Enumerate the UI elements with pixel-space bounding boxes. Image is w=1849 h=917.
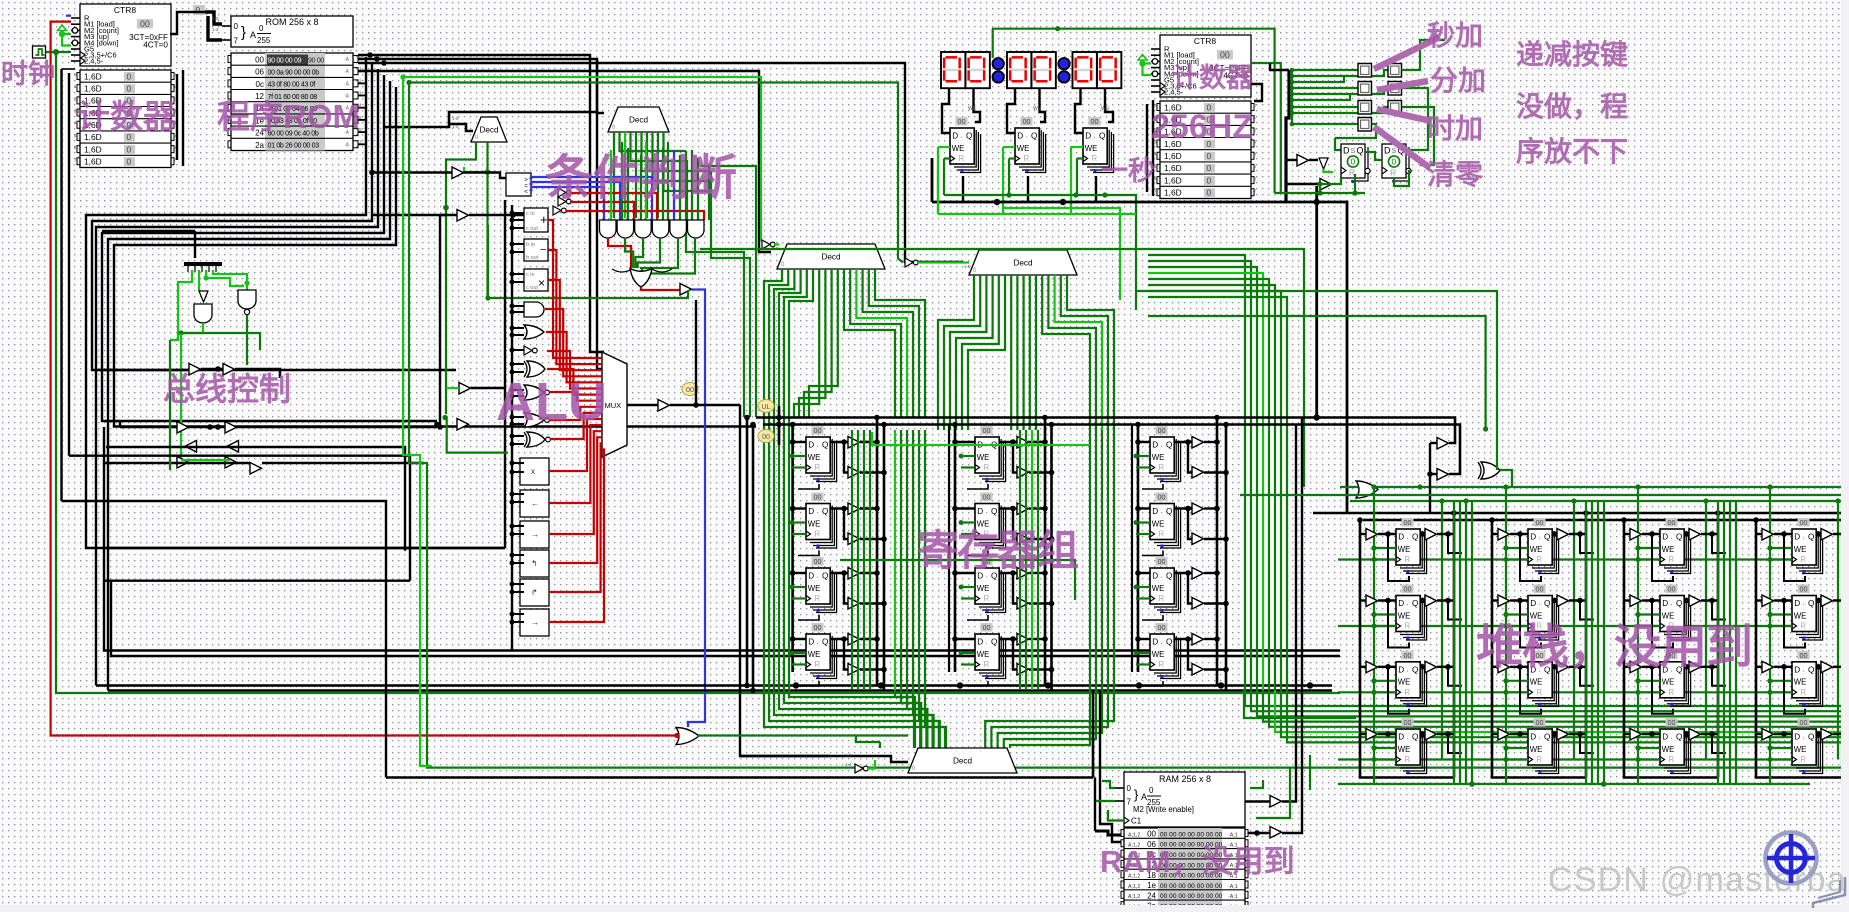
buffer B1 xyxy=(680,284,692,296)
wire green y298 xyxy=(488,290,688,298)
buffer BC8 xyxy=(225,457,237,469)
svg-text:0: 0 xyxy=(1207,188,1212,198)
svg-text:·A: ·A xyxy=(344,69,350,75)
buffer SR33 xyxy=(1689,661,1701,673)
wire AND outputs staircase to OR xyxy=(608,238,631,268)
buffer Q33a xyxy=(1192,568,1204,580)
svg-text:00: 00 xyxy=(686,385,694,394)
wire red condition rows xyxy=(570,193,657,220)
NAND gate (bus control) xyxy=(238,290,256,309)
inverter N6 xyxy=(855,764,863,773)
buffer RB2 xyxy=(1270,827,1282,839)
program counter CTR8 U1 xyxy=(71,4,177,168)
ROM 256x8 U2 xyxy=(222,16,353,47)
buffer SR23 xyxy=(1557,661,1569,673)
svg-text:0: 0 xyxy=(127,157,132,167)
svg-text:堆栈，没用到: 堆栈，没用到 xyxy=(1476,620,1752,673)
buffer Q13a xyxy=(848,568,860,580)
buffer SR11 xyxy=(1425,529,1437,541)
stack register SREG22 xyxy=(1528,585,1559,641)
register column 2 vertical buses xyxy=(954,425,957,673)
XNOR gate G7 xyxy=(527,432,545,447)
svg-text:24: 24 xyxy=(1147,891,1156,900)
buffer Q14b xyxy=(848,664,860,676)
svg-text:01 0b 26 00 00 03: 01 0b 26 00 00 03 xyxy=(268,143,320,150)
svg-text:<: < xyxy=(524,190,528,196)
svg-text:A;1,2: A;1,2 xyxy=(1128,884,1140,890)
buffer BC7 xyxy=(177,457,189,469)
stack column 1 loop xyxy=(1360,520,1454,778)
buffer Q22a xyxy=(1017,503,1029,515)
staircase into decoder U9 right xyxy=(1010,690,1090,748)
AND gate A6 xyxy=(688,220,705,238)
green elbows RAM right xyxy=(1250,780,1263,788)
svg-text:4CT=0: 4CT=0 xyxy=(143,41,168,50)
buffer Q12b xyxy=(848,533,860,545)
buffer RB1 xyxy=(1270,796,1282,808)
page corner glyph xyxy=(1813,877,1845,908)
buffer Q14a xyxy=(848,634,860,646)
svg-text:RAM，没用到: RAM，没用到 xyxy=(1100,844,1295,879)
svg-text:}: } xyxy=(241,24,246,41)
stack register SREG41 xyxy=(1792,518,1823,574)
wire long black y548 xyxy=(106,547,505,549)
flip-flop DSQ F2 xyxy=(1382,144,1411,183)
buffer SL13 xyxy=(1366,661,1378,673)
buffer SR34 xyxy=(1689,729,1701,741)
svg-text:0: 0 xyxy=(1149,786,1154,795)
wire gate outputs xyxy=(181,323,203,333)
7-segment display digit 2 xyxy=(966,52,990,88)
svg-text:1,6D: 1,6D xyxy=(84,144,102,154)
buffer B3 xyxy=(658,400,670,412)
AND gate G1 xyxy=(524,302,544,317)
stack register SREG12 xyxy=(1396,585,1427,641)
buffer Q21b xyxy=(1017,467,1029,479)
node value badge 00 xyxy=(682,383,698,396)
node badges UL/00 xyxy=(758,400,774,413)
svg-text:0: 0 xyxy=(127,84,132,94)
wire ROM outputs to right (row1) xyxy=(358,63,963,262)
counter2 rows left bracket xyxy=(1146,104,1148,192)
wire to decoder U3 xyxy=(384,112,597,127)
buffer Q24a xyxy=(1017,634,1029,646)
junction dots on ROM output bus xyxy=(367,52,373,58)
svg-text:·A: ·A xyxy=(344,142,350,148)
wires register REG14 xyxy=(793,638,806,640)
wire long green y771 xyxy=(409,83,1849,768)
svg-text:C1: C1 xyxy=(1131,817,1142,826)
wires display 1 to register xyxy=(942,88,950,133)
register REG24 xyxy=(975,623,1006,679)
green bus under display registers xyxy=(944,195,1136,310)
display register R3 xyxy=(1083,117,1114,173)
buffer Q13b xyxy=(848,598,860,610)
svg-text:↰: ↰ xyxy=(531,559,538,568)
wire bright green to M3/G5 xyxy=(62,33,71,35)
svg-text:c in: c in xyxy=(526,272,535,278)
svg-text:1,6D: 1,6D xyxy=(1164,163,1182,173)
green feed to XOR xyxy=(1136,291,1497,470)
svg-text:−: − xyxy=(540,244,546,256)
svg-text:2a: 2a xyxy=(255,141,264,150)
stack register SREG43 xyxy=(1792,651,1823,707)
stack register SREG24 xyxy=(1528,718,1559,774)
wires register REG24 xyxy=(955,638,975,640)
buffer BF2 xyxy=(1320,179,1332,191)
register block left bus pair xyxy=(746,418,749,686)
green bus to buttons xyxy=(1291,68,1293,124)
buffer bus end xyxy=(434,422,440,428)
buffer Q23a xyxy=(1017,568,1029,580)
buffer SR41 xyxy=(1821,529,1833,541)
svg-text:0: 0 xyxy=(1127,784,1132,793)
svg-text:256HZ: 256HZ xyxy=(1151,108,1253,146)
register REG14 xyxy=(806,623,837,679)
inverter N3 xyxy=(553,206,561,215)
buffer Q32a xyxy=(1192,503,1204,515)
svg-text:00: 00 xyxy=(762,434,770,441)
wire decoder U3 outputs xyxy=(446,142,476,414)
buffer SB2 xyxy=(1437,469,1449,481)
svg-text:90 00 00 09: 90 00 00 09 xyxy=(268,57,302,64)
register REG32 xyxy=(1150,493,1181,549)
register REG13 xyxy=(806,557,837,613)
green verticals register zone xyxy=(851,430,853,690)
buffer Q34a xyxy=(1192,634,1204,646)
node clock junction xyxy=(53,49,59,55)
buffer Q33b xyxy=(1192,598,1204,610)
decoder U12 output fan xyxy=(938,275,974,430)
button 秒加 S1 xyxy=(1358,64,1372,78)
wires RAM left xyxy=(1095,831,1121,835)
svg-text:条件判断: 条件判断 xyxy=(545,152,737,205)
green elbow at bus end xyxy=(442,415,447,420)
scrollbar bottom xyxy=(0,905,1849,912)
svg-text:←: ← xyxy=(531,499,539,508)
wires register REG21 xyxy=(955,441,975,443)
wires register REG32 xyxy=(1138,507,1150,509)
register group top bus pair xyxy=(756,418,1455,444)
MUX M1 xyxy=(602,352,627,457)
svg-text:一秒: 一秒 xyxy=(1101,156,1155,186)
svg-text:总线控制: 总线控制 xyxy=(163,371,291,407)
wire ROM out loop C xyxy=(96,69,378,686)
svg-text:时加: 时加 xyxy=(1427,113,1483,144)
svg-text:00 0a 90 00 00 0b: 00 0a 90 00 00 0b xyxy=(268,70,320,77)
OR gate G2 xyxy=(524,325,544,339)
red junction dot at OR input xyxy=(674,733,679,738)
register column 3 vertical buses xyxy=(1137,425,1140,673)
wire buffer to blue vertical xyxy=(688,290,705,728)
wires register 1 down xyxy=(938,146,950,148)
svg-text:·A: ·A xyxy=(344,57,350,63)
buffer Q11a xyxy=(848,437,860,449)
buffer BC4 xyxy=(225,422,237,434)
green bundle horizontal feed y249 xyxy=(700,249,1304,487)
display register R2 xyxy=(1015,117,1046,173)
svg-text:7: 7 xyxy=(1127,798,1132,807)
inverter N5 xyxy=(905,258,913,267)
svg-text:c out: c out xyxy=(526,285,538,291)
decoder U11 (Decd) xyxy=(777,244,885,269)
svg-text:ALU: ALU xyxy=(496,372,607,432)
wire clock to counter C6 xyxy=(46,51,72,53)
wire ROM out loop B xyxy=(92,63,456,370)
stack column 3 loop xyxy=(1624,520,1718,778)
button S4 xyxy=(1388,82,1402,96)
stack register SREG44 xyxy=(1792,718,1823,774)
svg-text:255: 255 xyxy=(257,36,271,45)
stack R-row green rails xyxy=(1338,558,1800,560)
stack register SREG14 xyxy=(1396,718,1427,774)
wires register group to stack xyxy=(1244,690,1356,718)
counter rows right bus xyxy=(176,74,178,160)
ALU multiplier U8 xyxy=(524,269,548,291)
svg-text:00 00 00 00 00 00 00: 00 00 00 00 00 00 00 xyxy=(1160,893,1223,900)
svg-text:0: 0 xyxy=(259,24,264,33)
wire black y501 feed xyxy=(62,501,387,778)
AND gate A5 xyxy=(670,220,687,238)
decoder U11 output fan xyxy=(764,269,945,748)
svg-text:b in: b in xyxy=(526,242,535,248)
purple annotation arrows xyxy=(1374,37,1440,69)
wire PC out to splitter xyxy=(170,12,205,34)
timer counter CTR8 U10 xyxy=(1151,35,1257,199)
flip-flop DSQ F1 xyxy=(1341,144,1370,183)
buffer SL43 xyxy=(1762,661,1774,673)
wire ROM out loop D xyxy=(102,75,437,421)
svg-text:00: 00 xyxy=(1147,830,1156,839)
ROM data table xyxy=(228,53,362,151)
svg-text:UL: UL xyxy=(762,404,771,411)
green rail y495 xyxy=(1240,494,1849,496)
stack register SREG33 xyxy=(1660,651,1691,707)
colon LED pair 1 xyxy=(993,58,1004,69)
svg-text:分加: 分加 xyxy=(1430,65,1486,96)
splitter label 0 xyxy=(193,5,205,15)
svg-text:没做，程: 没做，程 xyxy=(1516,91,1628,122)
svg-text:0: 0 xyxy=(127,71,132,81)
decoder U3 (Decd) xyxy=(471,117,507,142)
buffer B2 xyxy=(457,210,469,222)
svg-text:00 00 00 00 00 00 00: 00 00 00 00 00 00 00 xyxy=(1160,831,1223,838)
svg-text:00: 00 xyxy=(1220,50,1230,60)
wire clock trunk down left side xyxy=(56,52,1340,693)
svg-text:寄存器组: 寄存器组 xyxy=(917,527,1078,574)
buffer SL22 xyxy=(1498,595,1510,607)
svg-text:}: } xyxy=(1134,787,1139,802)
svg-text:0: 0 xyxy=(127,144,132,154)
svg-text:7: 7 xyxy=(234,37,239,46)
svg-text:b out: b out xyxy=(526,255,539,261)
RAM data table xyxy=(1121,828,1248,912)
svg-text:WE: WE xyxy=(1101,106,1110,112)
buffer SL11 xyxy=(1366,529,1378,541)
register REG31 xyxy=(1150,426,1181,482)
wires register REG34 xyxy=(1138,638,1150,640)
OR gate O2 shape xyxy=(676,728,699,745)
register column 1 vertical buses xyxy=(791,425,794,673)
input arrow (bright green) xyxy=(58,25,67,31)
svg-text:程序ROM: 程序ROM xyxy=(217,98,360,135)
svg-text:清零: 清零 xyxy=(1427,159,1484,190)
svg-text:WE: WE xyxy=(968,106,977,112)
stack register SREG11 xyxy=(1396,518,1427,574)
buffer SL33 xyxy=(1630,661,1642,673)
buffer SL24 xyxy=(1498,729,1510,741)
col2 col3 D-bus pairs xyxy=(948,425,950,673)
wire bright green trunk x403 xyxy=(403,77,432,766)
svg-text:A;1,2: A;1,2 xyxy=(1128,894,1140,900)
wire splitter to ROM address (thick bus) xyxy=(205,12,222,24)
svg-text:A: A xyxy=(250,30,256,40)
wire long bus y650 xyxy=(60,69,62,501)
wire thick black right xyxy=(1286,70,1289,202)
svg-text:Decd: Decd xyxy=(629,116,649,125)
NOR gate G6 xyxy=(524,413,544,427)
stack column 4 loop xyxy=(1756,520,1849,778)
svg-text:→: → xyxy=(531,618,539,627)
register REG33 xyxy=(1150,557,1181,613)
register REG11 xyxy=(806,426,837,482)
svg-text:00: 00 xyxy=(140,19,150,29)
buffer BC2 xyxy=(223,364,235,376)
svg-text:计数器: 计数器 xyxy=(77,98,177,135)
buffer SR12 xyxy=(1425,595,1437,607)
decoder U4 output fan xyxy=(613,132,615,218)
7-segment display digit 4 xyxy=(1032,52,1056,88)
svg-text:1-0: 1-0 xyxy=(452,116,459,121)
MUX output xyxy=(627,404,658,406)
svg-text:递减按键: 递减按键 xyxy=(1516,38,1628,70)
svg-text:·A;1: ·A;1 xyxy=(1228,832,1238,838)
wire black riser to RAM xyxy=(1094,778,1096,832)
svg-text:x: x xyxy=(531,467,535,476)
svg-text:43 0f 80 00 43 0f: 43 0f 80 00 43 0f xyxy=(268,82,316,89)
svg-text:Decd: Decd xyxy=(1013,259,1033,268)
svg-text:90 00: 90 00 xyxy=(308,57,324,64)
register REG12 xyxy=(806,493,837,549)
svg-text:CTR8: CTR8 xyxy=(1194,36,1216,46)
buffer Q12a xyxy=(848,503,860,515)
svg-text:WE: WE xyxy=(1033,106,1042,112)
buffer Q34b xyxy=(1192,664,1204,676)
long black bus y777 xyxy=(386,776,1093,779)
buffer BC6 xyxy=(227,441,239,453)
red staircase gate outputs to MUX xyxy=(548,220,602,358)
counter rows left bus xyxy=(62,68,76,70)
AND gate A4 xyxy=(652,220,669,238)
wire ROM out loop A (left side) xyxy=(86,57,505,548)
wire rect loop y447 xyxy=(106,447,405,551)
wires display 2 to register xyxy=(1007,88,1015,133)
svg-text:↱: ↱ xyxy=(531,588,538,597)
svg-text:+: + xyxy=(540,212,548,227)
register REG21 xyxy=(975,426,1006,482)
7-segment display digit 3 xyxy=(1007,52,1031,88)
button 清零 S7 xyxy=(1358,118,1372,132)
svg-text:计数器: 计数器 xyxy=(1172,63,1254,93)
wire long black y690 xyxy=(108,689,1332,691)
wires register 3 down xyxy=(1071,146,1083,148)
svg-text:RAM 256 x 8: RAM 256 x 8 xyxy=(1159,774,1211,784)
ALU input stub dots xyxy=(510,211,515,216)
input arrow (bright green) counter2 xyxy=(1138,55,1147,61)
7-segment display digit 1 xyxy=(941,52,965,88)
inverter G3 xyxy=(524,346,532,355)
stack register SREG34 xyxy=(1660,718,1691,774)
inverter (bus control) xyxy=(199,291,208,302)
buffer SR13 xyxy=(1425,661,1437,673)
buffer SB1 xyxy=(1437,438,1449,450)
wires register REG33 xyxy=(1138,572,1150,574)
OR gate O1 xyxy=(630,269,652,288)
inverter N4 xyxy=(762,240,770,249)
wire comparator outputs (blue) xyxy=(531,177,652,220)
register REG34 xyxy=(1150,623,1181,679)
buffer SR43 xyxy=(1821,661,1833,673)
wires register REG22 xyxy=(955,507,975,509)
svg-text:1,6D: 1,6D xyxy=(1164,188,1182,198)
XNOR gate G5 xyxy=(524,385,544,400)
inverter N2 xyxy=(558,197,566,206)
wires buttons to flip-flops xyxy=(1402,40,1446,70)
buffer SL44 xyxy=(1762,729,1774,741)
wire M1 red trunk xyxy=(51,22,676,736)
wire comparator feed y215 xyxy=(372,214,446,216)
button 时加 S5 xyxy=(1358,101,1372,115)
buffer SR14 xyxy=(1425,729,1437,741)
buffer SR24 xyxy=(1557,729,1569,741)
wire rect loop y580 xyxy=(105,580,410,582)
buffer SL23 xyxy=(1498,661,1510,673)
register REG22 xyxy=(975,493,1006,549)
stack register SREG21 xyxy=(1528,518,1559,574)
green vertical bundle x1245..1287 xyxy=(1148,255,1245,690)
svg-text:序放不下: 序放不下 xyxy=(1516,135,1628,167)
buffer SR31 xyxy=(1689,529,1701,541)
button 分加 S3 xyxy=(1358,82,1372,96)
AND gate A3 xyxy=(635,220,652,238)
buffer Q23b xyxy=(1017,598,1029,610)
svg-text:CTR8: CTR8 xyxy=(114,5,136,15)
svg-text:2,4,5-: 2,4,5- xyxy=(84,57,104,66)
green vertical x170 xyxy=(169,340,171,470)
bright green branch xyxy=(872,432,1090,445)
wires register REG23 xyxy=(955,572,975,574)
wire splitter up xyxy=(194,231,196,258)
buffer BC3 xyxy=(177,422,189,434)
stack register SREG32 xyxy=(1660,585,1691,641)
svg-text:1,6D: 1,6D xyxy=(84,84,102,94)
stack register SREG31 xyxy=(1660,518,1691,574)
buffer Q22b xyxy=(1017,533,1029,545)
XOR gate O4 xyxy=(1481,462,1500,479)
buffer SR32 xyxy=(1689,595,1701,607)
staircase into decoder U9 left xyxy=(895,690,915,748)
staircase register zone to stack xyxy=(1245,690,1849,706)
buffer SR22 xyxy=(1557,595,1569,607)
clock source CLK (square-wave box) xyxy=(33,46,46,58)
wire green feedback counter2 xyxy=(992,29,1275,193)
buffer Q21a xyxy=(1017,437,1029,449)
buffer BF1 xyxy=(1297,155,1309,167)
svg-text:0: 0 xyxy=(1207,175,1212,185)
wire rect loop y455 xyxy=(69,456,410,581)
wire ROM outputs to right (row0) xyxy=(358,55,604,352)
buffer Q24b xyxy=(1017,664,1029,676)
